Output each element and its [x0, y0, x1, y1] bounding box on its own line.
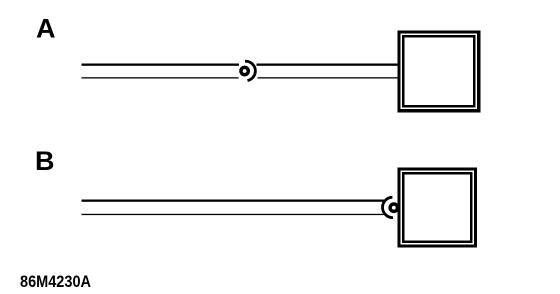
seat arc B (opens right, at box edge) — [383, 197, 393, 217]
fitting box B (double-walled square) — [398, 168, 478, 248]
svg-text:86M4230A: 86M4230A — [20, 272, 91, 291]
tube B bottom edge — [82, 214, 385, 215]
tube A bottom edge (left segment) — [82, 77, 239, 78]
svg-text:B: B — [35, 146, 55, 176]
tube A bottom edge (right segment) — [258, 77, 398, 78]
fitting box A (double-walled square) — [398, 31, 481, 113]
svg-text:A: A — [36, 13, 56, 43]
O-ring A (ring on tube) — [241, 67, 248, 74]
seat arc A (opens left) — [245, 61, 255, 80]
tube A top edge (right segment) — [257, 64, 398, 66]
O-ring B (ring seated at box edge) — [390, 204, 397, 211]
tube A top edge (left segment) — [82, 64, 240, 66]
tube B top edge — [82, 200, 385, 202]
